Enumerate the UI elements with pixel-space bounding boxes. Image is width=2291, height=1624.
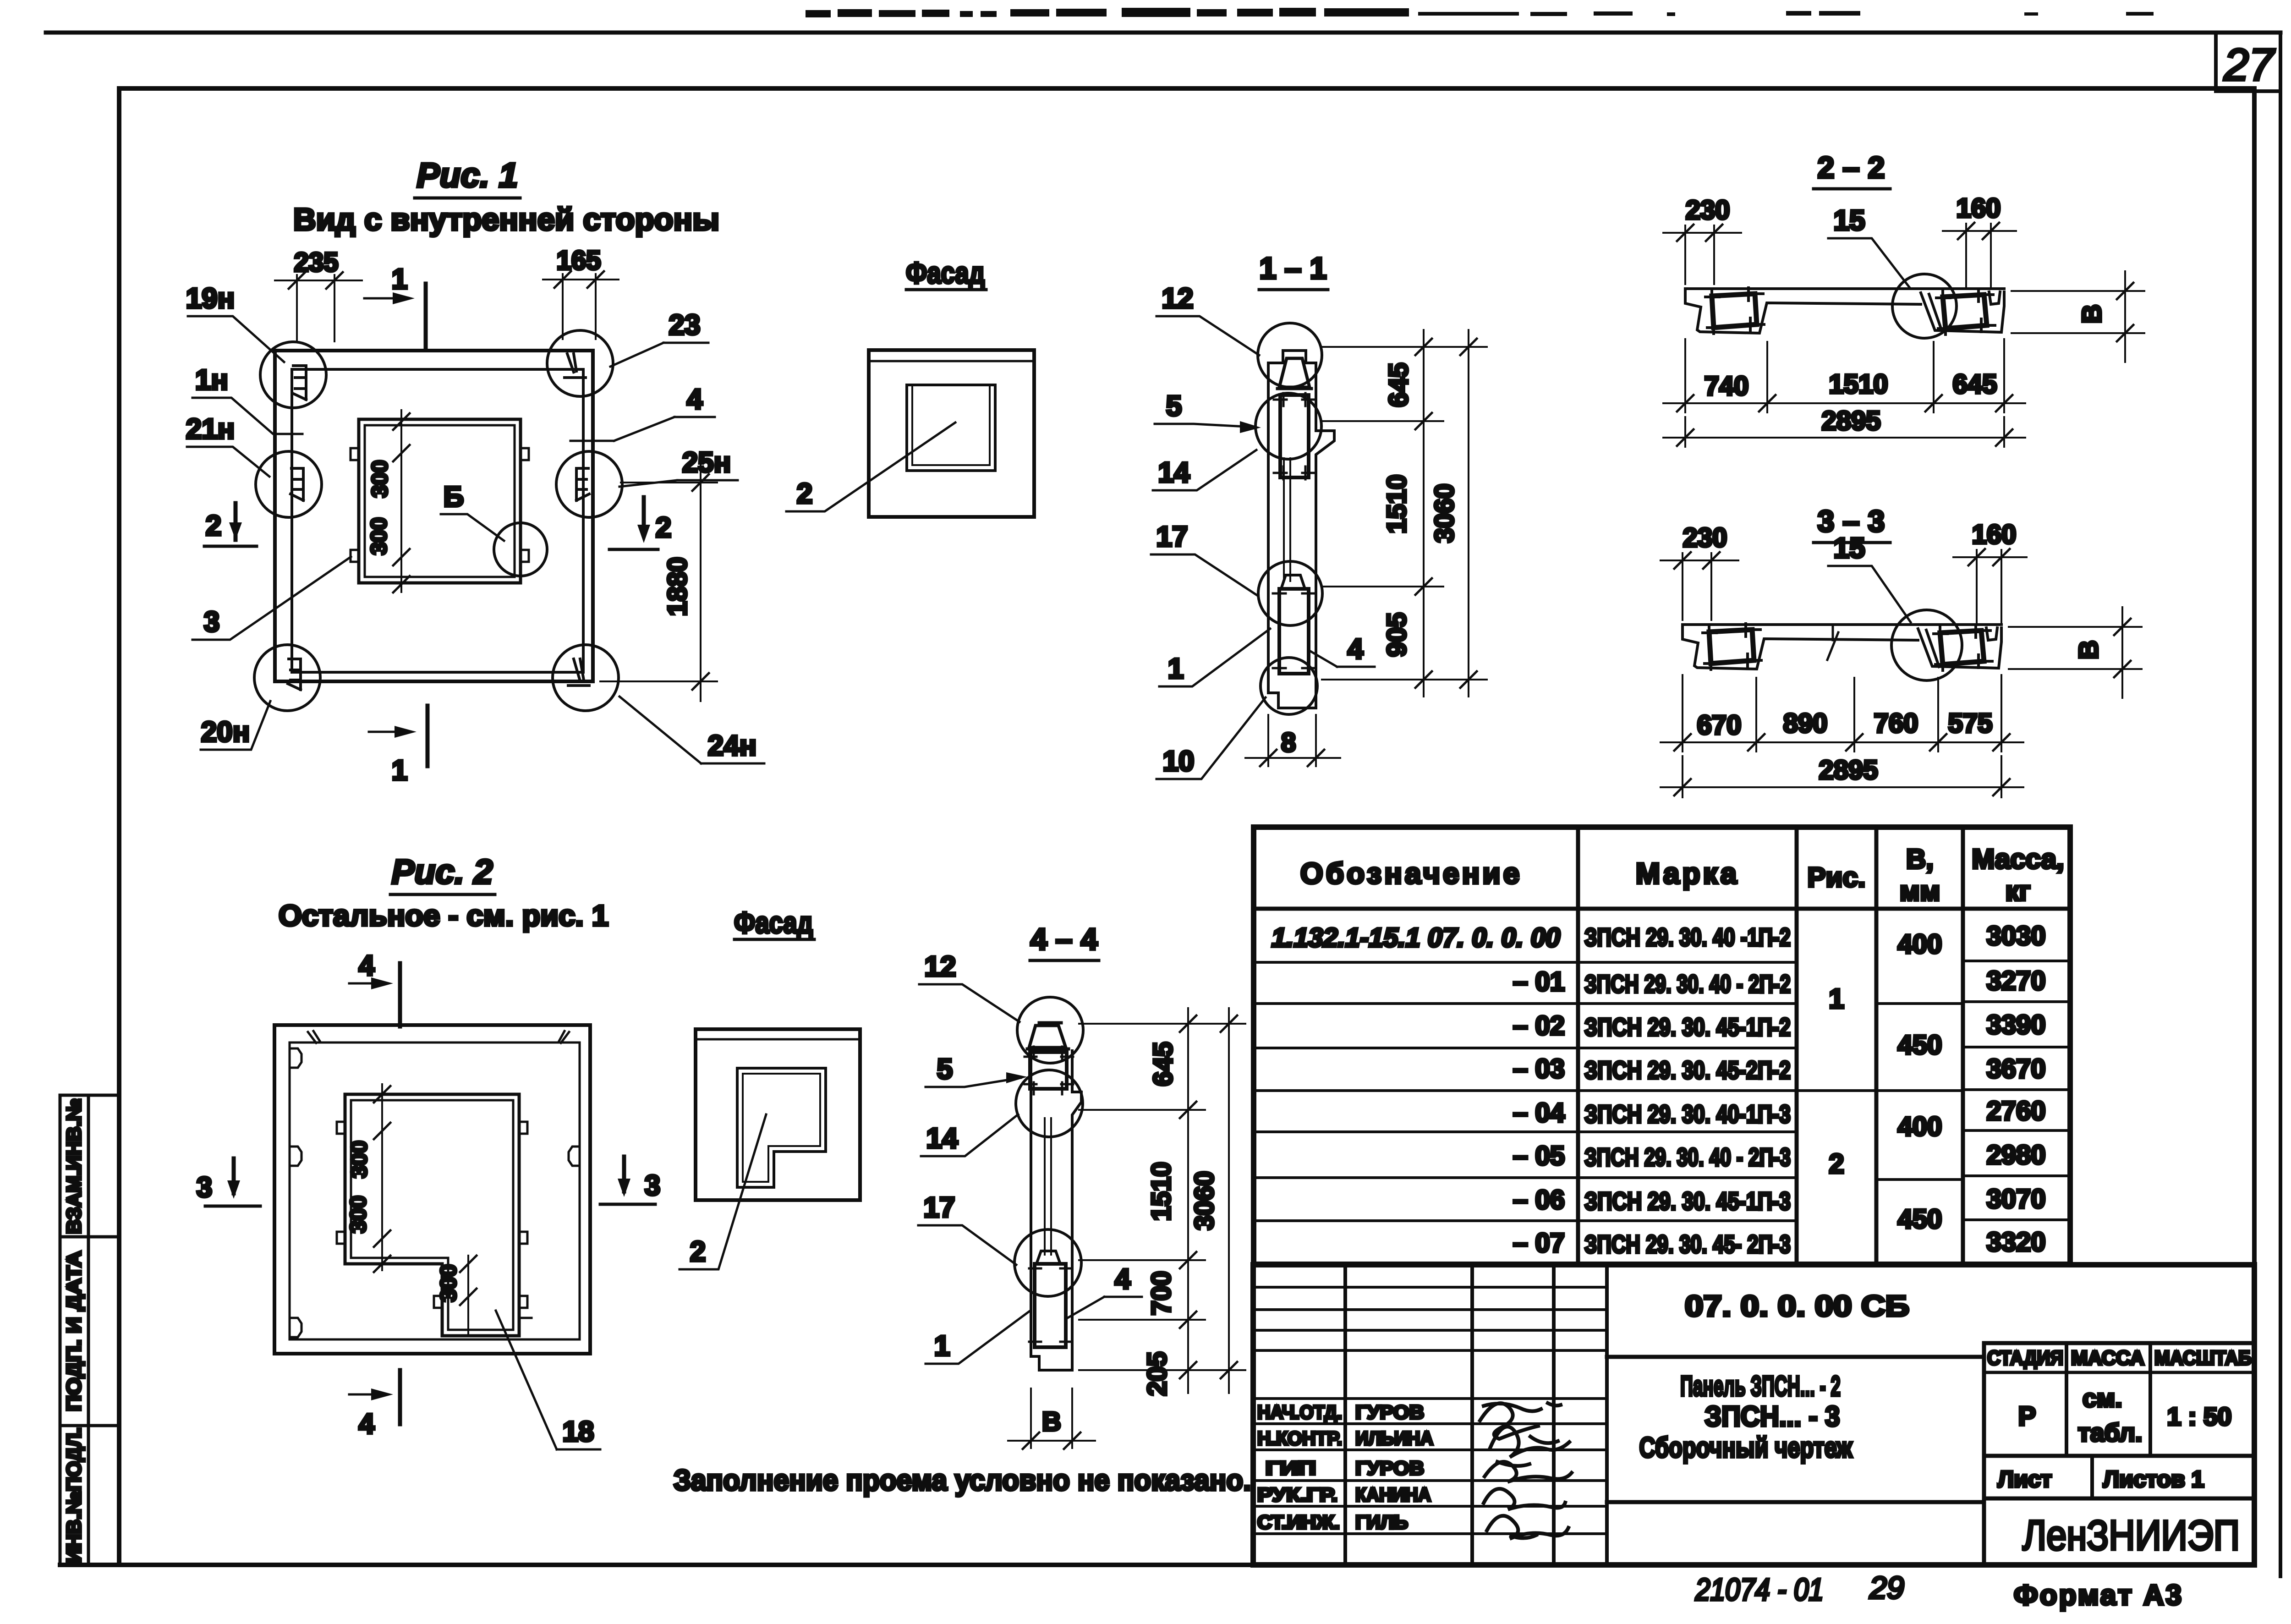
dim 2895 (2-2) bbox=[1685, 417, 2004, 447]
section 1-1 foot bbox=[1268, 693, 1316, 708]
facade2 opening inner bbox=[743, 1074, 820, 1182]
svg-text:1 : 50: 1 : 50 bbox=[2167, 1402, 2232, 1431]
svg-text:3060: 3060 bbox=[1430, 483, 1459, 543]
svg-text:3: 3 bbox=[204, 606, 219, 638]
svg-text:4: 4 bbox=[359, 950, 375, 982]
detail circle 15 (3-3) bbox=[1891, 610, 1962, 680]
section 1-1 lower hat bbox=[1281, 575, 1305, 589]
svg-text:СТАДИЯ: СТАДИЯ bbox=[1987, 1347, 2063, 1369]
svg-text:– 04: – 04 bbox=[1513, 1098, 1565, 1128]
svg-text:ГУРОВ: ГУРОВ bbox=[1355, 1457, 1424, 1479]
svg-text:700: 700 bbox=[1146, 1271, 1176, 1316]
table header bottom line bbox=[1254, 907, 2070, 911]
panel Рис.2 corner slashes bbox=[308, 1031, 569, 1318]
section 3-3 right end notch bbox=[1986, 628, 1997, 640]
svg-text:В,: В, bbox=[1906, 844, 1934, 874]
panel Рис.1 outer contour bbox=[275, 351, 593, 681]
svg-text:160: 160 bbox=[1957, 193, 2001, 223]
svg-text:1880: 1880 bbox=[663, 557, 692, 616]
svg-text:25н: 25н bbox=[682, 447, 731, 478]
svg-text:2895: 2895 bbox=[1821, 406, 1880, 436]
table column lines bbox=[1578, 827, 1963, 1264]
svg-text:ЗПСН 29. 30. 40-1П-3: ЗПСН 29. 30. 40-1П-3 bbox=[1584, 1100, 1791, 1128]
detail circle TR (23) bbox=[547, 330, 613, 396]
svg-text:905: 905 bbox=[1382, 613, 1412, 657]
page number box 27 bbox=[2214, 33, 2218, 91]
dim 300 300 Рис.2 bbox=[381, 1084, 383, 1270]
svg-text:20н: 20н bbox=[201, 716, 250, 748]
svg-text:– 01: – 01 bbox=[1513, 967, 1565, 997]
svg-text:450: 450 bbox=[1898, 1204, 1942, 1234]
dim B (3-3) bbox=[2009, 627, 2142, 669]
svg-text:4: 4 bbox=[359, 1408, 375, 1440]
panel Рис.2 outer contour bbox=[274, 1025, 590, 1354]
svg-text:19н: 19н bbox=[186, 283, 235, 314]
facade1 opening bbox=[907, 385, 995, 471]
svg-text:230: 230 bbox=[1686, 195, 1730, 225]
section 1-1 circle 10 bbox=[1261, 658, 1317, 714]
stage/mass/scale columns bbox=[2066, 1343, 2150, 1456]
svg-text:4: 4 bbox=[1348, 633, 1364, 665]
svg-text:400: 400 bbox=[1898, 929, 1942, 959]
signature rows labels bbox=[1257, 1401, 1433, 1533]
rebar ticks lower box bbox=[1273, 593, 1315, 668]
svg-text:645: 645 bbox=[1384, 363, 1414, 407]
section 4-4 circle 14 bbox=[1016, 1070, 1083, 1137]
facade2 square bbox=[696, 1029, 860, 1200]
svg-text:ЗПСН... - 3: ЗПСН... - 3 bbox=[1705, 1401, 1840, 1432]
dim 3060 (1-1) bbox=[1468, 330, 1469, 697]
detail circle BL (20н) bbox=[254, 645, 320, 711]
title block outer bbox=[1253, 1265, 2254, 1565]
rebar ticks top box bbox=[1274, 393, 1315, 479]
svg-text:300: 300 bbox=[368, 460, 392, 498]
opening Рис.2 outer bbox=[345, 1094, 519, 1336]
svg-text:МАССА: МАССА bbox=[2071, 1347, 2144, 1369]
svg-text:1: 1 bbox=[392, 263, 407, 295]
detail circle 15 (2-2) bbox=[1892, 274, 1957, 338]
designation cell line bbox=[1607, 1355, 1984, 1359]
rebar dots left (3-3) bbox=[1703, 624, 1761, 669]
dims right 4-4 extension lines bbox=[1079, 1024, 1245, 1370]
svg-text:1н: 1н bbox=[195, 364, 228, 396]
detail circle MR (25н) bbox=[556, 451, 622, 517]
svg-text:165: 165 bbox=[557, 246, 601, 275]
rebar box left (3-3) bbox=[1709, 630, 1754, 664]
rebar box right (3-3) bbox=[1940, 631, 1984, 664]
svg-text:Б: Б bbox=[444, 481, 464, 513]
svg-text:07. 0. 0. 00 СБ: 07. 0. 0. 00 СБ bbox=[1685, 1289, 1909, 1322]
dim 300 300 inner opening bbox=[400, 410, 402, 592]
svg-text:5: 5 bbox=[937, 1053, 953, 1085]
svg-text:– 06: – 06 bbox=[1513, 1185, 1565, 1215]
section 4-4 lower hat bbox=[1036, 1251, 1060, 1264]
section 4-4 web inner lines bbox=[1045, 1118, 1051, 1255]
svg-text:Рис. 1: Рис. 1 bbox=[417, 156, 518, 194]
table В,мм column splits bbox=[1876, 1004, 1963, 1180]
svg-text:235: 235 bbox=[294, 247, 339, 277]
svg-text:2 – 2: 2 – 2 bbox=[1818, 150, 1885, 184]
svg-text:ВЗАМ.ИНВ.№: ВЗАМ.ИНВ.№ bbox=[63, 1098, 85, 1234]
svg-text:Обозначение: Обозначение bbox=[1300, 857, 1522, 890]
facade2 top double line bbox=[696, 1038, 860, 1041]
section 1-1 lower rebar box bbox=[1279, 589, 1309, 674]
dims right 1-1 extension lines bbox=[1322, 347, 1487, 680]
svg-text:1510: 1510 bbox=[1382, 474, 1412, 533]
detail circle ML (21н) bbox=[256, 451, 322, 517]
facade1 top double line bbox=[869, 360, 1034, 362]
dim 8 (1-1) bbox=[1268, 715, 1316, 766]
svg-text:2: 2 bbox=[206, 510, 221, 542]
svg-text:Заполнение проема условно не: Заполнение проема условно не показано. bbox=[674, 1464, 1251, 1497]
svg-text:мм: мм bbox=[1900, 876, 1940, 906]
svg-text:2: 2 bbox=[797, 478, 812, 510]
svg-text:ГИП: ГИП bbox=[1266, 1457, 1316, 1479]
rebar box right (2-2) bbox=[1943, 295, 1987, 329]
svg-text:3060: 3060 bbox=[1189, 1171, 1219, 1230]
rebar ticks 4-4 top bbox=[1025, 1047, 1073, 1094]
detail circle TL (19н) bbox=[260, 342, 326, 408]
svg-text:Вид с внутренней стороны: Вид с внутренней стороны bbox=[293, 202, 719, 237]
svg-text:12: 12 bbox=[1162, 283, 1194, 314]
svg-text:450: 450 bbox=[1898, 1030, 1942, 1060]
svg-text:Листов 1: Листов 1 bbox=[2103, 1466, 2204, 1492]
panel Рис.2 inner top line bbox=[290, 1042, 580, 1339]
svg-text:Формат А3: Формат А3 bbox=[2014, 1580, 2183, 1611]
opening tabs Рис.1 bbox=[351, 448, 529, 562]
dim chain 645/1510/700/205 (4-4) bbox=[1187, 1008, 1189, 1393]
facade1 square bbox=[869, 350, 1034, 517]
svg-text:Панель ЗПСН... - 2: Панель ЗПСН... - 2 bbox=[1680, 1371, 1841, 1402]
svg-text:ЛенЗНИИЭП: ЛенЗНИИЭП bbox=[2022, 1512, 2240, 1559]
svg-text:НАЧ.ОТД.: НАЧ.ОТД. bbox=[1257, 1401, 1342, 1423]
svg-text:4: 4 bbox=[1115, 1263, 1131, 1295]
svg-text:3670: 3670 bbox=[1986, 1054, 2045, 1084]
section 3-3 bar outline bbox=[1683, 625, 2001, 669]
svg-text:29: 29 bbox=[1869, 1570, 1904, 1605]
svg-text:Масса,: Масса, bbox=[1972, 844, 2064, 874]
svg-text:В: В bbox=[2074, 640, 2104, 659]
svg-text:160: 160 bbox=[1972, 520, 2017, 549]
svg-text:– 05: – 05 bbox=[1513, 1141, 1565, 1171]
outer right border line bbox=[2279, 33, 2282, 1576]
svg-text:14: 14 bbox=[1158, 457, 1190, 488]
svg-text:230: 230 bbox=[1683, 523, 1727, 553]
svg-text:В: В bbox=[1042, 1407, 1061, 1437]
svg-text:2895: 2895 bbox=[1819, 755, 1878, 785]
svg-text:1: 1 bbox=[1168, 653, 1184, 685]
svg-text:ЗПСН 29. 30. 45-1П-3: ЗПСН 29. 30. 45-1П-3 bbox=[1584, 1187, 1791, 1215]
section 4-4 top hat trapezoid bbox=[1027, 1023, 1069, 1049]
opening tabs Рис.2 bbox=[337, 1122, 527, 1308]
dim 1880 bbox=[600, 483, 717, 681]
svg-text:ЗПСН 29. 30. 40 -1П-2: ЗПСН 29. 30. 40 -1П-2 bbox=[1584, 923, 1791, 951]
frame top second line segment right bbox=[2216, 89, 2280, 93]
dim chain 670/890/760/575 (3-3) bbox=[1683, 675, 2001, 752]
svg-text:– 03: – 03 bbox=[1513, 1054, 1565, 1084]
svg-text:1: 1 bbox=[1829, 983, 1844, 1014]
name cell border bbox=[1982, 1343, 1986, 1565]
svg-text:2760: 2760 bbox=[1986, 1096, 2045, 1126]
signatures squiggles bbox=[1480, 1403, 1561, 1439]
svg-text:2980: 2980 bbox=[1986, 1140, 2045, 1170]
svg-text:Остальное - см. рис. 1: Остальное - см. рис. 1 bbox=[279, 899, 608, 932]
svg-text:ЗПСН 29. 30. 45-2П-2: ЗПСН 29. 30. 45-2П-2 bbox=[1584, 1056, 1791, 1084]
anchor glyph MR bbox=[576, 468, 589, 500]
svg-text:1510: 1510 bbox=[1146, 1162, 1176, 1221]
svg-text:645: 645 bbox=[1953, 369, 1997, 399]
svg-text:Лист: Лист bbox=[1998, 1466, 2052, 1492]
table Рис column split bbox=[1797, 1089, 1876, 1092]
rebar box left (2-2) bbox=[1712, 294, 1757, 328]
svg-text:3070: 3070 bbox=[1986, 1184, 2045, 1214]
svg-text:Сборочный чертеж: Сборочный чертеж bbox=[1639, 1432, 1853, 1464]
svg-text:575: 575 bbox=[1948, 708, 1993, 738]
svg-text:2: 2 bbox=[656, 512, 671, 543]
svg-text:17: 17 bbox=[1156, 521, 1188, 553]
svg-text:1.132.1-15.1 07. 0. 0. 00: 1.132.1-15.1 07. 0. 0. 00 bbox=[1272, 923, 1560, 953]
svg-text:ЗПСН 29. 30. 40 - 2П-2: ЗПСН 29. 30. 40 - 2П-2 bbox=[1584, 970, 1791, 998]
svg-text:ИЛЬИНА: ИЛЬИНА bbox=[1355, 1427, 1433, 1449]
svg-text:МАСШТАБ: МАСШТАБ bbox=[2154, 1347, 2252, 1369]
dim B (4-4) bbox=[1031, 1388, 1072, 1448]
section 1-1 circle 12 bbox=[1258, 323, 1322, 387]
svg-text:ГИЛЬ: ГИЛЬ bbox=[1355, 1511, 1408, 1533]
svg-text:300: 300 bbox=[367, 517, 391, 555]
svg-text:17: 17 bbox=[924, 1192, 955, 1223]
svg-text:Марка: Марка bbox=[1636, 857, 1739, 890]
svg-text:В: В bbox=[2077, 304, 2107, 324]
section 1-1 top hat trapezoid bbox=[1277, 358, 1311, 389]
section 4-4 circle 12 bbox=[1017, 997, 1083, 1063]
svg-text:РУК.ГР.: РУК.ГР. bbox=[1257, 1484, 1337, 1505]
svg-text:Р: Р bbox=[2018, 1401, 2036, 1431]
table border bbox=[1254, 827, 2070, 1264]
svg-text:2: 2 bbox=[690, 1236, 706, 1267]
facade1 opening inner line bbox=[912, 387, 990, 465]
panel Рис.2 edge hooks bbox=[290, 1048, 580, 1337]
svg-text:1510: 1510 bbox=[1829, 369, 1888, 399]
svg-text:Фасад: Фасад bbox=[906, 256, 985, 290]
section 4-4 body outline bbox=[1031, 1051, 1081, 1356]
svg-text:Рис. 2: Рис. 2 bbox=[392, 852, 493, 891]
svg-text:14: 14 bbox=[926, 1123, 958, 1154]
svg-text:ПОДП. И ДАТА: ПОДП. И ДАТА bbox=[63, 1251, 85, 1411]
svg-text:740: 740 bbox=[1705, 371, 1749, 401]
opening Рис.1 outer bbox=[359, 419, 521, 583]
anchor glyph TL bbox=[292, 366, 306, 400]
svg-text:12: 12 bbox=[925, 951, 956, 982]
section 1-1 web inner lines bbox=[1284, 458, 1290, 581]
svg-text:8: 8 bbox=[1281, 728, 1296, 757]
dim 2895 (3-3) bbox=[1683, 756, 2001, 797]
svg-text:Рис.: Рис. bbox=[1808, 862, 1866, 893]
svg-text:3: 3 bbox=[645, 1170, 660, 1202]
section 4-4 lower rebar box bbox=[1035, 1264, 1066, 1347]
table Масса row lines bbox=[1963, 961, 2070, 1220]
svg-text:5: 5 bbox=[1166, 390, 1182, 422]
svg-text:3030: 3030 bbox=[1986, 921, 2045, 951]
svg-text:ИНВ.№ПОДЛ.: ИНВ.№ПОДЛ. bbox=[63, 1427, 85, 1563]
anchor glyph BR bbox=[568, 659, 589, 686]
svg-text:27: 27 bbox=[2223, 39, 2275, 90]
svg-text:23: 23 bbox=[669, 309, 701, 341]
opening Рис.1 inner bbox=[365, 425, 515, 577]
svg-text:3270: 3270 bbox=[1986, 966, 2045, 996]
svg-text:1: 1 bbox=[392, 755, 407, 786]
rebar dots right (2-2) bbox=[1936, 289, 1995, 335]
svg-text:21н: 21н bbox=[186, 413, 235, 445]
svg-text:1 – 1: 1 – 1 bbox=[1260, 251, 1327, 285]
dim chain 740/1510/645 (2-2) bbox=[1685, 339, 2004, 412]
svg-text:4 – 4: 4 – 4 bbox=[1030, 922, 1098, 956]
anchor glyph ML bbox=[290, 468, 303, 500]
section 1-1 body outline bbox=[1268, 351, 1334, 693]
svg-text:3390: 3390 bbox=[1986, 1010, 2045, 1040]
svg-text:24н: 24н bbox=[708, 730, 756, 762]
svg-text:– 02: – 02 bbox=[1513, 1011, 1565, 1041]
svg-text:18: 18 bbox=[563, 1416, 594, 1448]
svg-text:см.: см. bbox=[2083, 1384, 2122, 1412]
svg-text:ЗПСН 29. 30. 40 - 2П-3: ЗПСН 29. 30. 40 - 2П-3 bbox=[1584, 1143, 1791, 1171]
section 1-1 circle 5/14 bbox=[1255, 393, 1321, 459]
svg-text:2: 2 bbox=[1829, 1148, 1844, 1179]
title block left row lines bbox=[1253, 1287, 1607, 1534]
svg-text:300: 300 bbox=[437, 1264, 461, 1302]
section 2-2 right end notch bbox=[1989, 292, 2000, 304]
dim chain 645/1510/905 bbox=[1423, 330, 1425, 697]
svg-text:Фасад: Фасад bbox=[734, 905, 813, 939]
svg-text:– 07: – 07 bbox=[1513, 1228, 1565, 1258]
svg-text:205: 205 bbox=[1142, 1352, 1172, 1396]
svg-text:кг: кг bbox=[2005, 876, 2030, 906]
facade2 opening bbox=[737, 1068, 826, 1187]
panel Рис.1 inner contour bbox=[292, 369, 583, 672]
svg-text:1: 1 bbox=[934, 1330, 950, 1362]
rebar dots right (3-3) bbox=[1934, 625, 1992, 670]
svg-text:300: 300 bbox=[347, 1141, 372, 1178]
section 2-2 bar outline bbox=[1685, 289, 2004, 333]
svg-text:КАНИНА: КАНИНА bbox=[1355, 1484, 1431, 1505]
svg-text:760: 760 bbox=[1874, 708, 1918, 738]
svg-text:ЗПСН 29. 30. 45- 2П-3: ЗПСН 29. 30. 45- 2П-3 bbox=[1584, 1230, 1791, 1258]
left stamp column boxes bbox=[60, 1095, 119, 1565]
svg-text:ЗПСН 29. 30. 45-1П-2: ЗПСН 29. 30. 45-1П-2 bbox=[1584, 1013, 1791, 1041]
svg-text:ГУРОВ: ГУРОВ bbox=[1355, 1401, 1424, 1423]
anchor glyph BL bbox=[288, 659, 301, 690]
svg-text:10: 10 bbox=[1163, 746, 1195, 777]
section 4-4 foot bbox=[1031, 1356, 1072, 1370]
svg-text:400: 400 bbox=[1898, 1112, 1942, 1141]
title block vertical lines left part bbox=[1345, 1265, 1607, 1565]
detail circle BR (24н) bbox=[553, 645, 619, 711]
rebar dots left (2-2) bbox=[1705, 288, 1764, 334]
svg-text:Н.КОНТР.: Н.КОНТР. bbox=[1257, 1427, 1342, 1449]
svg-text:3: 3 bbox=[197, 1172, 212, 1203]
svg-text:табл.: табл. bbox=[2078, 1418, 2142, 1447]
svg-text:15: 15 bbox=[1834, 205, 1865, 236]
svg-text:670: 670 bbox=[1697, 710, 1742, 740]
outer top border line bbox=[46, 31, 2280, 35]
svg-text:4: 4 bbox=[687, 384, 703, 415]
svg-text:СТ.ИНЖ.: СТ.ИНЖ. bbox=[1257, 1511, 1340, 1533]
section 3-3 mid seam bbox=[1827, 625, 1838, 660]
dim 300 (leg) Рис.2 bbox=[467, 1256, 469, 1334]
svg-text:890: 890 bbox=[1783, 708, 1828, 738]
svg-text:3320: 3320 bbox=[1986, 1227, 2045, 1257]
svg-text:15: 15 bbox=[1834, 532, 1865, 564]
opening Рис.2 inner bbox=[351, 1100, 513, 1330]
rebar ticks 4-4 lower bbox=[1029, 1268, 1072, 1342]
dim B (2-2) bbox=[2011, 291, 2144, 333]
scan artifact dashes top bbox=[806, 8, 2154, 17]
section 4-4 circle 17 bbox=[1014, 1229, 1081, 1296]
svg-text:21074 - 01: 21074 - 01 bbox=[1695, 1572, 1824, 1607]
svg-text:300: 300 bbox=[346, 1196, 371, 1233]
section 1-1 circle 17 bbox=[1258, 561, 1322, 625]
section 4-4 top rebar box bbox=[1030, 1052, 1067, 1089]
detail circle Б bbox=[494, 523, 547, 576]
dim 3060 (4-4) bbox=[1228, 1008, 1230, 1393]
anchor glyph TR bbox=[565, 354, 586, 378]
sheet row bbox=[2090, 1456, 2094, 1498]
section 1-1 top rebar box bbox=[1280, 395, 1309, 477]
svg-text:645: 645 bbox=[1148, 1042, 1178, 1086]
table row lines (Обозначение/Марка) bbox=[1254, 962, 1797, 1221]
